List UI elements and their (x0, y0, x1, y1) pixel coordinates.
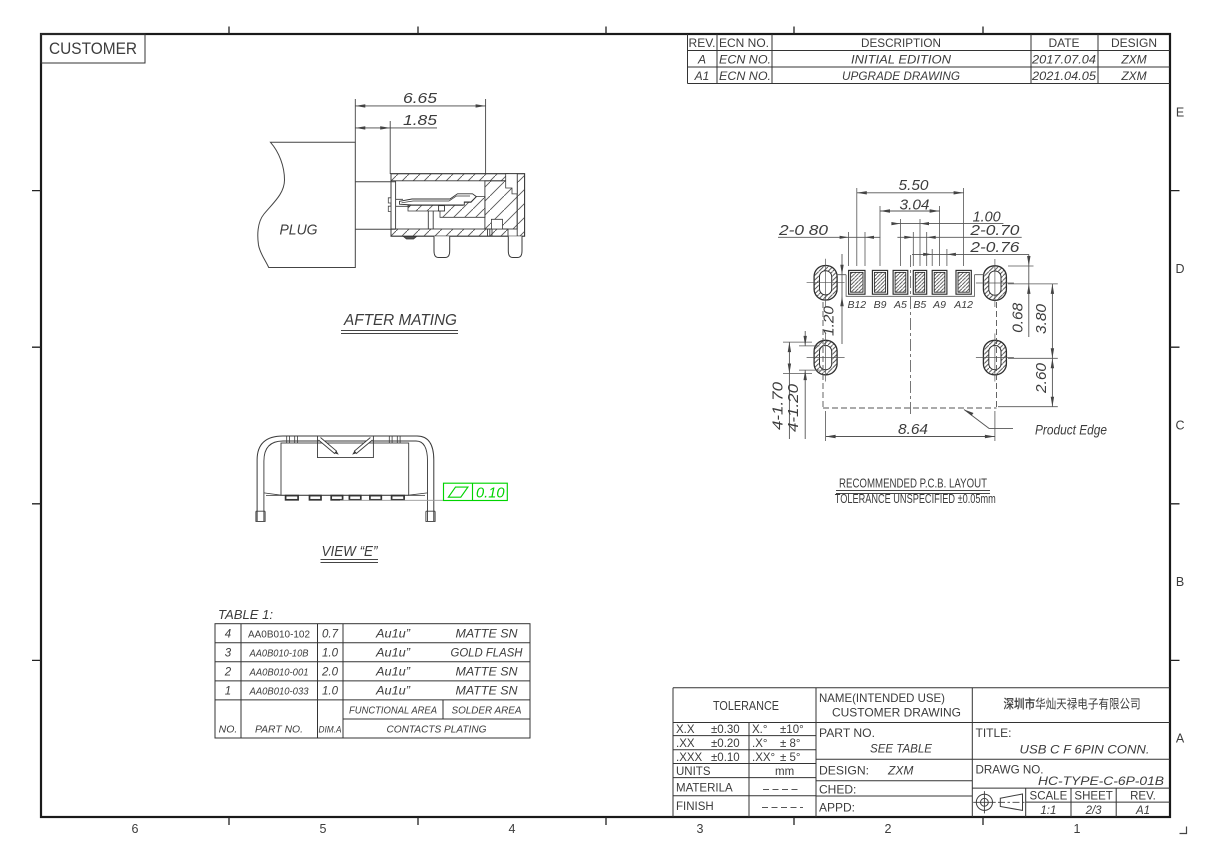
svg-text:0.7: 0.7 (322, 629, 339, 641)
smt pad B12 (849, 270, 865, 294)
svg-text:6.65: 6.65 (403, 91, 438, 107)
svg-text:USB C F 6PIN CONN.: USB C F 6PIN CONN. (1020, 743, 1150, 757)
svg-text:MATTE SN: MATTE SN (456, 686, 519, 698)
flatness feature control frame (green) (444, 483, 508, 500)
svg-text:.X°: .X° (752, 738, 767, 750)
inner housing (281, 443, 409, 495)
dim 1.20 left vertical (841, 254, 843, 344)
dim 2.60 right vertical (1051, 358, 1053, 406)
svg-text:A9: A9 (932, 299, 946, 311)
svg-text:2021.04.05: 2021.04.05 (1031, 69, 1096, 83)
dimension 6.65 (355, 99, 485, 174)
svg-text:6: 6 (132, 822, 139, 836)
receptacle shell outline (391, 174, 525, 237)
svg-text:ECN NO.: ECN NO. (719, 69, 771, 83)
svg-text:FUNCTIONAL AREA: FUNCTIONAL AREA (349, 705, 437, 717)
svg-text:±10°: ±10° (780, 724, 804, 736)
company name (CJK glyphs) (1004, 697, 1140, 709)
svg-text:E: E (1176, 106, 1184, 120)
svg-text:CUSTOMER DRAWING: CUSTOMER DRAWING (832, 706, 961, 720)
svg-text:UNITS: UNITS (676, 766, 711, 778)
svg-text:3: 3 (225, 648, 232, 660)
svg-text:PLUG: PLUG (280, 222, 318, 239)
svg-text:SOLDER AREA: SOLDER AREA (452, 705, 522, 717)
svg-text:0.10: 0.10 (476, 485, 505, 501)
pad labels (847, 299, 973, 311)
through-hole leg middle (434, 236, 450, 257)
pad area bracket outline (837, 275, 984, 297)
svg-text:2: 2 (885, 822, 892, 836)
mounting hole bottom-right (976, 334, 1014, 382)
svg-text:MATERILA: MATERILA (676, 783, 733, 795)
smt pad A9 (932, 270, 947, 294)
svg-text:3.80: 3.80 (1034, 304, 1050, 334)
svg-text:REV.: REV. (689, 36, 716, 50)
svg-text:1: 1 (225, 686, 231, 698)
dim 5.50 (857, 192, 964, 194)
through-hole leg right (508, 236, 522, 257)
svg-text:.XX: .XX (676, 738, 695, 750)
svg-text:B12: B12 (847, 299, 866, 311)
mounting hole top-right (976, 259, 1014, 307)
svg-text:AFTER MATING: AFTER MATING (343, 312, 457, 329)
rear insulator block hatched (485, 181, 517, 229)
svg-text:Au1u”: Au1u” (375, 648, 411, 660)
shell inner outline (264, 441, 428, 521)
svg-text:APPD:: APPD: (819, 801, 855, 815)
svg-text:1.0: 1.0 (322, 686, 339, 698)
svg-text:TITLE:: TITLE: (976, 726, 1012, 740)
svg-text:ZXM: ZXM (887, 764, 913, 778)
bottom flange lines (264, 493, 428, 495)
svg-text:AA0B010-001: AA0B010-001 (249, 668, 309, 679)
svg-text:B9: B9 (874, 299, 887, 311)
svg-text:MATTE SN: MATTE SN (456, 667, 519, 679)
svg-text:MATTE SN: MATTE SN (456, 629, 519, 641)
svg-text:REV.: REV. (1130, 791, 1156, 803)
svg-text:SHEET: SHEET (1074, 791, 1112, 803)
svg-text:1:1: 1:1 (1040, 805, 1056, 817)
svg-text:UPGRADE DRAWING: UPGRADE DRAWING (842, 69, 960, 83)
svg-text:2.60: 2.60 (1034, 363, 1050, 394)
svg-text:A: A (1176, 732, 1185, 746)
svg-text:RECOMMENDED P.C.B. LAYOUT: RECOMMENDED P.C.B. LAYOUT (839, 476, 987, 491)
svg-text:1: 1 (1074, 822, 1081, 836)
svg-text:2: 2 (224, 667, 232, 679)
shell bottom wall hatched (391, 229, 508, 236)
dim 4-1.70 (788, 342, 790, 439)
svg-text:Au1u”: Au1u” (375, 667, 411, 679)
svg-text:A5: A5 (893, 299, 907, 311)
revision table (688, 34, 1171, 84)
svg-text:±0.20: ±0.20 (711, 738, 740, 750)
svg-text:ECN NO.: ECN NO. (719, 53, 771, 67)
left wall spring tabs (388, 198, 391, 212)
svg-text:5.50: 5.50 (899, 178, 929, 194)
svg-text:A1: A1 (694, 69, 710, 83)
svg-text:INITIAL EDITION: INITIAL EDITION (851, 53, 951, 67)
dim 2-0.70 (897, 236, 1021, 238)
svg-text:± 5°: ± 5° (780, 752, 801, 764)
svg-text:AA0B010-033: AA0B010-033 (249, 687, 309, 698)
mounting hole top-left (807, 259, 845, 307)
dim 2-0 80 (778, 236, 880, 238)
svg-text:ZXM: ZXM (1120, 53, 1146, 67)
svg-text:VIEW “E”: VIEW “E” (322, 543, 379, 560)
latch arms (319, 438, 337, 454)
corner trim mark bottom-right (1180, 827, 1187, 834)
svg-text:Au1u”: Au1u” (375, 629, 411, 641)
svg-text:± 8°: ± 8° (780, 738, 801, 750)
svg-text:5: 5 (320, 822, 327, 836)
svg-text:2-0.70: 2-0.70 (969, 223, 1019, 239)
svg-text:Product Edge: Product Edge (1035, 423, 1107, 438)
svg-text:DRAWG NO.: DRAWG NO. (976, 763, 1044, 777)
svg-text:PART NO.: PART NO. (255, 724, 303, 736)
svg-text:X.X: X.X (676, 724, 695, 736)
leg section lines (428, 211, 433, 229)
right cap hatched (517, 174, 524, 237)
dim 0.68 right vertical (1028, 254, 1030, 337)
svg-text:ECN NO.: ECN NO. (719, 36, 769, 50)
svg-text:CUSTOMER: CUSTOMER (49, 40, 137, 58)
terminal pads (286, 496, 405, 500)
dim 3.80 right vertical (1008, 284, 1058, 358)
CUSTOMER box (41, 34, 145, 63)
shell left wall (395, 181, 397, 229)
svg-text:1.85: 1.85 (403, 113, 438, 129)
svg-text:D: D (1175, 262, 1184, 276)
svg-text:CHED:: CHED: (819, 783, 856, 797)
svg-text:SCALE: SCALE (1030, 791, 1068, 803)
svg-text:AA0B010-102: AA0B010-102 (248, 629, 310, 641)
svg-text:B: B (1176, 575, 1184, 589)
plug body with break-line left edge (258, 142, 356, 267)
svg-text:3: 3 (697, 822, 704, 836)
svg-text:TOLERANCE UNSPECIFIED ±0.05mm: TOLERANCE UNSPECIFIED ±0.05mm (835, 492, 996, 506)
third angle projection symbol (973, 791, 1025, 813)
smt pad B9 (872, 270, 887, 294)
svg-text:A1: A1 (1135, 805, 1150, 817)
contact tip holder (396, 199, 410, 206)
zone numbers bottom (132, 822, 1081, 836)
contact retention tab (439, 206, 445, 211)
extension lines above pads (849, 188, 964, 266)
svg-text:1.20: 1.20 (822, 306, 838, 336)
svg-text:TABLE 1:: TABLE 1: (218, 607, 273, 622)
dim 8.64 (826, 411, 995, 441)
svg-text:CONTACTS PLATING: CONTACTS PLATING (387, 724, 487, 736)
svg-text:±0.30: ±0.30 (711, 724, 740, 736)
plug tongue lines entering receptacle (355, 182, 395, 230)
svg-text:DIM.A: DIM.A (319, 725, 342, 735)
svg-text:DATE: DATE (1048, 36, 1079, 50)
svg-text:PART NO.: PART NO. (819, 726, 875, 740)
dim 4-1.20 (804, 331, 806, 439)
svg-text:0.68: 0.68 (1010, 303, 1026, 333)
svg-text:A12: A12 (953, 299, 973, 311)
dimension 1.85 (355, 121, 437, 174)
svg-text:B5: B5 (913, 299, 926, 311)
shell bottom small lines (488, 229, 493, 236)
product edge hidden outline (823, 302, 997, 408)
dim 3.04 (880, 210, 940, 212)
svg-text:C: C (1175, 419, 1184, 433)
middle column (819, 691, 961, 815)
product edge leader (964, 410, 1013, 429)
shell outer outline (257, 436, 434, 521)
svg-text:2017.07.04: 2017.07.04 (1031, 53, 1096, 67)
svg-text:8.64: 8.64 (898, 422, 928, 438)
svg-text:2-0 80: 2-0 80 (778, 223, 828, 239)
vertical centerline (910, 255, 912, 415)
svg-text:2/3: 2/3 (1085, 805, 1103, 817)
top-right white notch (506, 174, 518, 194)
svg-text:AA0B010-10B: AA0B010-10B (249, 649, 309, 660)
svg-text:1.0: 1.0 (322, 648, 339, 660)
svg-text:HC-TYPE-C-6P-01B: HC-TYPE-C-6P-01B (1038, 774, 1164, 788)
svg-text:NAME(INTENDED USE): NAME(INTENDED USE) (819, 691, 945, 705)
zone letters right (1175, 106, 1184, 746)
svg-text:.XXX: .XXX (676, 752, 703, 764)
svg-text:3.04: 3.04 (900, 198, 930, 214)
svg-text:2-0.76: 2-0.76 (969, 240, 1020, 256)
svg-text:±0.10: ±0.10 (711, 752, 740, 764)
svg-text:NO.: NO. (219, 724, 238, 736)
svg-text:4-1.20: 4-1.20 (786, 384, 802, 432)
leg feet (256, 511, 265, 521)
dim 1.00 (892, 223, 1003, 225)
solder pad under shell (404, 237, 417, 240)
svg-text:4: 4 (225, 629, 231, 641)
svg-text:DESCRIPTION: DESCRIPTION (861, 36, 941, 50)
shell top wall hatched (391, 174, 508, 181)
svg-text:4: 4 (509, 822, 516, 836)
contact blade (white band) (400, 194, 477, 205)
svg-text:GOLD FLASH: GOLD FLASH (451, 648, 524, 660)
mounting hole bottom-left (807, 334, 845, 382)
smt pad A12 (956, 270, 971, 294)
svg-text:X.°: X.° (752, 724, 767, 736)
svg-text:DESIGN: DESIGN (1111, 36, 1157, 50)
top center latch window (318, 436, 374, 458)
housing hatched region around contact (408, 197, 485, 218)
right column (976, 726, 1165, 788)
bottom-right white notch (491, 219, 502, 229)
svg-text:mm: mm (775, 766, 794, 778)
svg-text:2.0: 2.0 (321, 667, 339, 679)
top edge tabs (287, 436, 298, 444)
dim 2-0.76 (912, 253, 1029, 255)
svg-text:4-1.70: 4-1.70 (770, 382, 786, 430)
smt pad B5 (913, 270, 926, 294)
svg-text:Au1u”: Au1u” (375, 686, 411, 698)
leader to flatness frame (340, 499, 444, 501)
svg-text:ZXM: ZXM (1120, 69, 1146, 83)
svg-text:SEE TABLE: SEE TABLE (870, 742, 933, 756)
svg-text:.XX°: .XX° (752, 752, 775, 764)
smt pad A5 (893, 270, 908, 294)
svg-text:DESIGN:: DESIGN: (819, 764, 869, 778)
svg-text:FINISH: FINISH (676, 801, 714, 813)
svg-text:A: A (697, 53, 706, 67)
svg-text:TOLERANCE: TOLERANCE (713, 699, 779, 713)
